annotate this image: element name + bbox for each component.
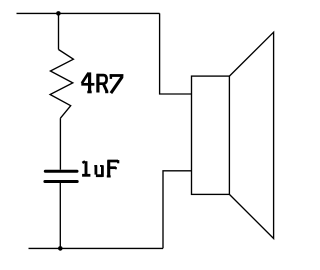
resistor R zigzag [50, 50, 73, 119]
wire top horizontal [17, 12, 160, 14]
speaker LS1 cone [229, 32, 273, 238]
wire speaker bottom branch [163, 171, 192, 249]
glyph 4 [81, 72, 94, 92]
glyph F [107, 160, 118, 176]
node junction bottom [58, 246, 63, 251]
capacitor C bottom plate [45, 180, 77, 183]
speaker LS1 body rectangle [192, 76, 230, 194]
wire speaker top branch [160, 13, 192, 94]
wire resistor top lead [58, 13, 60, 49]
value label 1uF [82, 160, 118, 177]
glyph 1 [82, 161, 90, 175]
glyph 7 [110, 74, 124, 93]
glyph u [94, 165, 102, 177]
wire capacitor bottom lead [59, 183, 61, 248]
glyph R [97, 74, 109, 93]
value label 4R7 [81, 72, 123, 93]
capacitor C top plate [45, 170, 77, 173]
wire resistor-capacitor lead [59, 118, 61, 170]
wire bottom horizontal [29, 247, 164, 249]
node junction top [56, 11, 61, 16]
